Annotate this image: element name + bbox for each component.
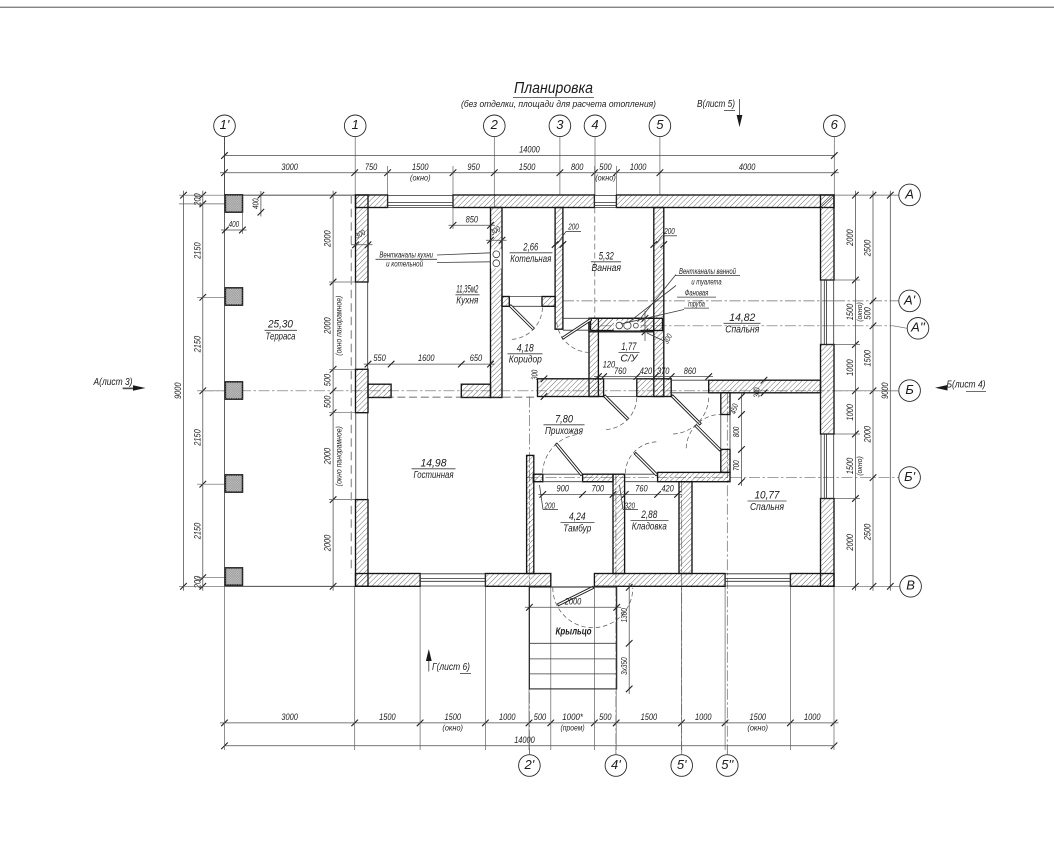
axis circle 5' (671, 755, 693, 777)
axis circle В (834, 585, 900, 587)
svg-text:4: 4 (591, 117, 598, 132)
dim 300 kitchen east wall (487, 237, 494, 244)
svg-text:14000: 14000 (514, 735, 535, 746)
svg-text:2000: 2000 (322, 230, 333, 248)
svg-text:1500: 1500 (863, 350, 874, 367)
boiler room south wall east block (542, 297, 555, 307)
tambur door swing (543, 434, 582, 473)
svg-text:10,77: 10,77 (755, 490, 781, 502)
hallway south wall block 700 (583, 474, 613, 482)
entry door swing (553, 588, 633, 628)
svg-text:1000: 1000 (695, 712, 712, 723)
svg-text:950: 950 (467, 162, 480, 173)
right extension lines (834, 279, 860, 281)
svg-text:С/У: С/У (620, 353, 638, 364)
entry door leaf (558, 586, 594, 606)
svg-text:2150: 2150 (192, 242, 203, 260)
svg-text:Б': Б' (904, 469, 915, 484)
svg-text:В(лист 5): В(лист 5) (697, 99, 735, 110)
svg-text:2000: 2000 (845, 534, 856, 552)
boiler room door leaf (509, 305, 534, 330)
south wall segment east corner (790, 574, 834, 587)
svg-text:700: 700 (592, 483, 605, 494)
svg-text:Спальня: Спальня (750, 502, 784, 513)
east window 1500 upper (833, 280, 835, 345)
vent note bath leaders (638, 275, 677, 323)
svg-text:4000: 4000 (739, 162, 756, 173)
wc vent channels (614, 321, 641, 331)
svg-text:200: 200 (192, 575, 203, 589)
kladovka door swing (625, 442, 656, 473)
svg-text:500: 500 (599, 712, 612, 723)
top extension lines (387, 166, 389, 195)
svg-text:Вентканалы кухни: Вентканалы кухни (379, 251, 433, 260)
svg-text:1000*: 1000* (562, 712, 583, 723)
wc dim chain 120 760 420 370 860 (594, 376, 713, 378)
tambur door leaf (555, 443, 582, 476)
sheet top border (0, 6, 1054, 8)
wc door swing (605, 398, 637, 430)
svg-text:420: 420 (661, 483, 674, 494)
svg-text:14,82: 14,82 (729, 312, 756, 324)
svg-text:2150: 2150 (192, 522, 203, 540)
svg-text:1500: 1500 (379, 712, 396, 723)
axis circle А (834, 194, 899, 196)
svg-text:Тамбур: Тамбур (563, 523, 591, 535)
porch outline (529, 587, 616, 689)
axis line 5' vertical (681, 482, 683, 755)
kitchen window dim 850 (452, 208, 454, 230)
tambur east wall (613, 474, 625, 573)
svg-text:800: 800 (732, 426, 741, 437)
svg-text:1500: 1500 (519, 162, 536, 173)
axis line 2' vertical (528, 397, 530, 755)
axis circle 6 (824, 115, 846, 137)
svg-text:(окно панорамное): (окно панорамное) (335, 426, 344, 486)
west window boundary extension lines (329, 281, 356, 283)
left 200 extra tick line top (179, 203, 197, 205)
svg-text:1500: 1500 (641, 712, 658, 723)
svg-text:650: 650 (470, 353, 483, 364)
svg-text:2000: 2000 (322, 534, 333, 552)
svg-text:Спальня: Спальня (725, 324, 759, 335)
bedroom1 south wall east part (709, 380, 821, 393)
svg-text:1000: 1000 (845, 359, 856, 376)
svg-text:1000: 1000 (845, 404, 856, 421)
svg-text:4': 4' (611, 757, 621, 772)
svg-text:2,88: 2,88 (641, 509, 658, 521)
west wall top pier (356, 195, 369, 282)
svg-text:2500: 2500 (863, 523, 874, 541)
svg-text:3000: 3000 (281, 162, 298, 173)
bedroom2 door swing (686, 414, 720, 448)
terrace roof dashed line (350, 195, 352, 573)
svg-text:3: 3 (556, 117, 564, 132)
east wall top segment (821, 195, 835, 280)
svg-text:14000: 14000 (519, 145, 540, 156)
right inner dimension chain (854, 191, 856, 591)
svg-text:2500: 2500 (863, 239, 874, 257)
svg-text:14,98: 14,98 (421, 457, 448, 469)
svg-text:А': А' (903, 292, 916, 307)
boiler-bath partition wall axis3 (555, 208, 563, 330)
hallway east dim chain 800 700 (741, 393, 743, 486)
svg-text:500: 500 (322, 373, 333, 386)
svg-text:Б: Б (905, 382, 914, 397)
north window kitchen 1500 (388, 194, 453, 196)
svg-text:3x350: 3x350 (620, 657, 629, 675)
svg-text:200: 200 (663, 227, 675, 236)
axis circle 2' (519, 755, 541, 777)
svg-text:1000: 1000 (804, 712, 821, 723)
bedroom2 door leaf (695, 425, 721, 451)
svg-text:500: 500 (599, 162, 612, 173)
svg-text:2150: 2150 (192, 335, 203, 353)
svg-text:Ванная: Ванная (592, 263, 622, 274)
svg-text:320: 320 (625, 501, 636, 510)
bath door swing (557, 320, 590, 353)
svg-text:труба: труба (688, 299, 705, 308)
svg-text:Терраса: Терраса (266, 331, 296, 342)
vent note kitchen leaders (437, 253, 491, 255)
kladovka door leaf (634, 452, 657, 475)
axis line 5'' vertical (726, 393, 728, 755)
axis line Б horizontal (203, 390, 899, 392)
svg-text:(без отделки, площади для расч: (без отделки, площади для расчета отопле… (461, 99, 656, 109)
svg-text:1': 1' (220, 117, 230, 132)
svg-text:5'': 5'' (721, 757, 734, 772)
axis circle 1' (214, 115, 236, 137)
svg-text:760: 760 (614, 366, 627, 377)
axis circle Б (899, 380, 921, 402)
svg-text:5,32: 5,32 (599, 250, 614, 262)
svg-text:Г(лист 6): Г(лист 6) (432, 662, 470, 673)
svg-text:1300: 1300 (620, 608, 629, 622)
terrace column dims 400 (260, 191, 262, 217)
hallway south wall west stub (533, 474, 543, 482)
svg-text:(окно): (окно) (442, 724, 463, 733)
svg-text:1: 1 (352, 117, 359, 132)
dim 300 west wall (352, 242, 359, 249)
corridor south wall block middle (637, 379, 671, 397)
svg-text:850: 850 (466, 214, 479, 225)
wc door leaf (604, 395, 629, 420)
kitchen east wall (491, 208, 503, 398)
tambur dim chain 900 700 760 420 (538, 493, 682, 495)
west panoramic window lower (355, 413, 357, 500)
svg-text:(окно): (окно) (747, 724, 768, 733)
svg-text:Коридор: Коридор (509, 354, 542, 365)
axis circle Б' (899, 467, 921, 489)
svg-text:(окно): (окно) (855, 456, 864, 476)
svg-text:2000: 2000 (322, 317, 333, 335)
bedroom2 north wall (658, 472, 730, 481)
bottom extension lines (224, 587, 226, 751)
south window bedroom 1500 (725, 585, 790, 587)
west wall middle pier (356, 369, 369, 412)
boiler room door swing (511, 308, 543, 340)
svg-text:1000: 1000 (499, 712, 516, 723)
corridor south wall block west (538, 379, 604, 397)
bath south wall (591, 318, 663, 330)
bedroom2 door sill lines (720, 415, 722, 450)
east window 1500 lower (833, 434, 835, 499)
svg-text:Б(лист 4): Б(лист 4) (947, 380, 986, 391)
south window living 1500 (420, 585, 485, 587)
axis line 4' vertical (615, 474, 617, 754)
left extension lines (179, 194, 355, 196)
svg-text:(окно): (окно) (595, 174, 616, 183)
axis circle 1 (344, 115, 366, 137)
svg-text:Вентканалы ванной: Вентканалы ванной (679, 267, 737, 276)
porch steps (529, 642, 616, 644)
svg-text:Кладовка: Кладовка (632, 522, 667, 533)
svg-text:2000: 2000 (863, 425, 874, 443)
left overall dimension 9000 (183, 191, 185, 591)
corner miter northeast (821, 195, 835, 208)
svg-text:700: 700 (732, 460, 741, 471)
svg-text:900: 900 (557, 483, 570, 494)
hallway east wall block 700 (721, 449, 730, 472)
svg-text:Кухня: Кухня (456, 296, 478, 307)
svg-text:6: 6 (831, 117, 839, 132)
svg-text:750: 750 (365, 162, 378, 173)
axis line Б' horizontal (527, 477, 899, 479)
svg-text:А'': А'' (910, 320, 925, 335)
svg-text:1500: 1500 (412, 162, 429, 173)
axis circle 4' (605, 755, 627, 777)
svg-text:4,18: 4,18 (517, 342, 535, 354)
kitchen south dim chain 550 1600 650 (364, 363, 495, 365)
svg-text:25,30: 25,30 (267, 319, 294, 331)
axis line 2 through wall (493, 195, 495, 208)
svg-text:2000: 2000 (322, 447, 333, 465)
axis line А'' horizontal (600, 325, 834, 327)
svg-text:1,77: 1,77 (621, 341, 636, 353)
svg-text:2,66: 2,66 (523, 241, 539, 253)
top overall dimension 14000 (225, 155, 835, 157)
north wall middle segment (453, 195, 594, 208)
svg-text:9000: 9000 (173, 382, 184, 399)
axis circle 3 (549, 115, 571, 137)
svg-text:5: 5 (656, 117, 664, 132)
door opening sill lines (509, 296, 542, 298)
svg-text:Крыльцо: Крыльцо (556, 627, 592, 638)
svg-text:(проем): (проем) (561, 724, 585, 733)
tambur west wall (527, 455, 534, 573)
wc top wall lower edge (589, 318, 654, 332)
terrace columns (225, 195, 242, 212)
svg-text:2150: 2150 (192, 429, 203, 447)
north wall west segment (356, 195, 388, 208)
svg-text:А: А (904, 186, 914, 201)
svg-text:500: 500 (322, 395, 333, 408)
south wall segment living west (356, 574, 421, 587)
svg-text:300: 300 (753, 387, 762, 398)
axis 4 dashed through bath (594, 208, 596, 319)
svg-text:1600: 1600 (418, 353, 435, 364)
bedroom1 door leaf (671, 395, 701, 425)
svg-text:500: 500 (863, 307, 874, 320)
kitchen vent channels (491, 249, 502, 268)
svg-text:7,80: 7,80 (555, 413, 574, 425)
svg-text:300: 300 (530, 369, 539, 380)
svg-text:200: 200 (567, 223, 579, 232)
axis circle 5'' (717, 755, 739, 777)
bath door leaf (562, 319, 592, 340)
right middle dimension chain (872, 191, 874, 591)
svg-text:500: 500 (534, 712, 547, 723)
svg-text:11,35м2: 11,35м2 (456, 283, 478, 295)
south wall segment living-tambur (485, 574, 550, 587)
east wall middle segment (821, 345, 835, 435)
svg-text:Прихожая: Прихожая (545, 426, 583, 437)
bottom dimension chain (220, 722, 839, 724)
svg-text:(окно): (окно) (410, 174, 431, 183)
svg-text:860: 860 (684, 366, 697, 377)
axis line А' horizontal (563, 300, 834, 302)
dim 300 wc wall (644, 311, 646, 341)
svg-text:Планировка: Планировка (514, 80, 593, 97)
svg-text:А(лист 3): А(лист 3) (93, 377, 133, 388)
svg-text:Котельная: Котельная (510, 254, 551, 265)
svg-text:2: 2 (490, 117, 499, 132)
bath east wall (654, 208, 664, 397)
svg-text:Гостинная: Гостинная (414, 470, 454, 481)
bottom overall dimension 14000 (225, 745, 835, 747)
kitchen south wall west stub (368, 384, 391, 397)
west panoramic window upper (355, 282, 357, 369)
top dimension chain (220, 172, 839, 174)
svg-text:1500: 1500 (445, 712, 462, 723)
axis circle А'' (834, 325, 893, 327)
west wall bottom pier (356, 500, 369, 587)
bedroom1 door swing (673, 398, 709, 434)
svg-text:2000: 2000 (564, 596, 582, 607)
svg-text:800: 800 (571, 162, 584, 173)
boiler room south wall west stub (502, 297, 509, 307)
kitchen opening dashes (374, 396, 538, 398)
svg-text:760: 760 (635, 483, 648, 494)
terrace outline (225, 194, 356, 196)
svg-text:В: В (906, 578, 915, 593)
porch width dim 2000 (525, 606, 621, 608)
svg-text:400: 400 (252, 198, 261, 209)
svg-text:400: 400 (229, 220, 240, 229)
west wall inner dimension chain (332, 191, 334, 591)
porch height dims 1300 3x350 (628, 583, 630, 694)
svg-text:1000: 1000 (630, 162, 647, 173)
svg-text:550: 550 (373, 353, 386, 364)
hallway east wall stub 450 (721, 393, 730, 415)
svg-text:2000: 2000 (845, 229, 856, 247)
svg-text:2': 2' (524, 757, 535, 772)
svg-text:370: 370 (657, 366, 670, 377)
axis circle А' (834, 300, 899, 302)
svg-text:420: 420 (640, 366, 653, 377)
right overall dimension 9000 (889, 191, 891, 591)
south wall segment tambur-bedroom (594, 574, 725, 587)
svg-text:3000: 3000 (281, 712, 298, 723)
axis circle 4 (584, 115, 606, 137)
kladovka east wall (679, 482, 692, 574)
wc west wall (589, 318, 598, 396)
north window 500 (594, 194, 616, 196)
kitchen south wall east stub (461, 384, 490, 397)
axis circle 5 (649, 115, 671, 137)
north wall east segment (616, 195, 834, 208)
svg-text:Фановая: Фановая (685, 288, 709, 297)
axis circle 2 (484, 115, 506, 137)
svg-text:1500: 1500 (750, 712, 767, 723)
left dimension chain (202, 191, 204, 591)
svg-text:5': 5' (677, 757, 687, 772)
svg-text:и туалета: и туалета (691, 277, 722, 286)
svg-text:200: 200 (544, 501, 556, 510)
svg-text:и котельной: и котельной (386, 259, 423, 268)
svg-text:4,24: 4,24 (569, 511, 586, 523)
east wall bottom segment (821, 499, 835, 587)
svg-text:(окно панорамное): (окно панорамное) (335, 295, 344, 355)
